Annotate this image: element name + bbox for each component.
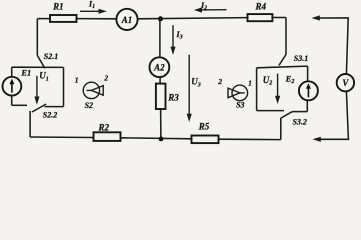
voltage arrow U2: [277, 74, 279, 98]
ammeter A1: [116, 9, 137, 30]
current arrow I1: [80, 10, 100, 12]
svg-text:R1: R1: [52, 1, 64, 11]
node bottom junction: [159, 137, 164, 142]
svg-text:V: V: [342, 78, 349, 88]
wire voltmeter bottom lead: [319, 91, 348, 139]
wire E2 top lead: [307, 66, 309, 81]
resistor R2: [94, 132, 121, 141]
current arrow I2: [202, 9, 227, 11]
svg-text:1: 1: [248, 78, 252, 87]
wire R1 to A1: [77, 18, 117, 20]
resistor R4: [248, 14, 273, 21]
wire right vertical to S3.1: [285, 18, 287, 55]
wire bypass bottom edge right loop: [257, 110, 284, 112]
wire voltmeter top lead: [318, 18, 348, 74]
svg-text:1: 1: [75, 76, 79, 85]
ammeter A2: [150, 57, 170, 77]
wire R3 to bottom node: [160, 109, 162, 139]
resistor R3: [156, 84, 166, 109]
voltmeter V: [337, 74, 354, 91]
svg-text:S2: S2: [85, 101, 93, 110]
wire E2 bottom lead: [306, 100, 308, 111]
switch S3.2 blade: [281, 112, 292, 118]
wire bottom-right vertical to S3.2: [280, 118, 282, 140]
switch S2.2 blade: [32, 104, 46, 112]
resistor R5: [192, 136, 219, 144]
svg-text:R5: R5: [198, 121, 210, 131]
wire R2 to R5 through node: [121, 138, 192, 139]
resistor R1: [50, 15, 77, 22]
svg-text:S3: S3: [236, 101, 244, 110]
svg-text:R4: R4: [254, 1, 266, 11]
source E1: [3, 77, 22, 96]
voltmeter arrow bottom: [313, 137, 321, 142]
svg-text:S2.1: S2.1: [44, 52, 58, 61]
svg-text:A2: A2: [153, 63, 165, 73]
wire node to E2 top: [257, 66, 308, 68]
svg-text:S3.2: S3.2: [292, 117, 306, 126]
switch S2.1 blade: [37, 55, 45, 68]
svg-text:E1: E1: [20, 68, 31, 78]
wire E1 bottom lead: [11, 96, 13, 106]
rotary switch S3: [228, 85, 248, 101]
wire bypass left edge right loop: [256, 68, 258, 111]
wire bypass right edge left loop: [63, 67, 65, 106]
wire top-left stub: [37, 18, 50, 20]
voltmeter arrow top: [312, 15, 320, 20]
wire E1 to S2.2 terminal: [12, 104, 27, 106]
wire A2 to R3: [159, 77, 161, 84]
wire A1 to R4 through node: [138, 18, 248, 19]
svg-text:2: 2: [103, 74, 108, 83]
wire R4 to top-right corner: [272, 17, 286, 19]
wire node to E1 top: [12, 66, 64, 68]
wire E1 top lead: [11, 67, 13, 77]
source E2: [299, 81, 318, 100]
wire left vertical to S2.1: [36, 19, 38, 56]
svg-text:R2: R2: [98, 122, 110, 132]
wire bypass bottom edge left loop: [45, 106, 64, 108]
node top junction: [158, 16, 163, 21]
svg-text:S3.1: S3.1: [294, 54, 308, 63]
wire S2.2 down to bottom-left corner: [29, 111, 31, 137]
svg-text:S2.2: S2.2: [43, 110, 57, 119]
svg-text:A1: A1: [121, 15, 133, 25]
rotary switch S2: [83, 82, 103, 98]
wire node to A2: [159, 19, 161, 58]
voltage arrow U1: [36, 76, 38, 99]
svg-text:2: 2: [217, 77, 222, 86]
wire bottom left segment: [30, 136, 93, 139]
svg-text:R3: R3: [167, 92, 179, 102]
wire E2 to S3.2 blade: [292, 111, 307, 113]
voltage arrow U3: [188, 55, 190, 116]
switch S3.1 blade: [279, 55, 286, 66]
paper background: [0, 0, 361, 145]
wire R5 to bottom-right corner: [219, 138, 281, 140]
current arrow I3: [172, 25, 174, 48]
